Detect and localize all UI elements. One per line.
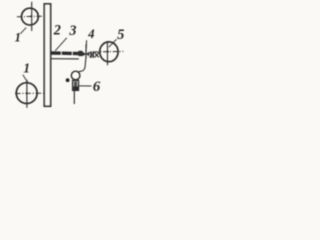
svg-text:5: 5 [117,27,124,43]
svg-text:2: 2 [53,22,61,38]
svg-text:6: 6 [93,79,101,95]
svg-text:4: 4 [87,27,95,41]
svg-text:3: 3 [68,23,76,39]
svg-text:1: 1 [23,61,30,76]
svg-text:1: 1 [15,30,21,44]
